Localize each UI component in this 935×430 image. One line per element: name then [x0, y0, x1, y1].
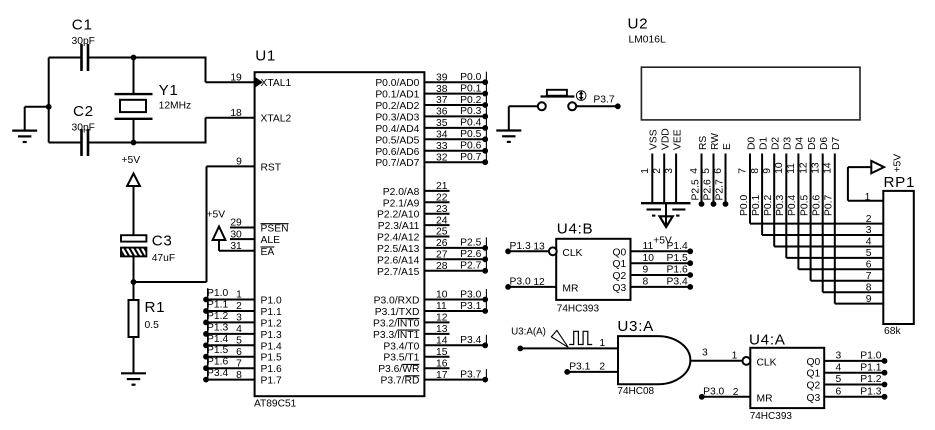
svg-text:P0.5: P0.5 [460, 129, 481, 140]
svg-text:13: 13 [533, 242, 545, 253]
svg-text:D0: D0 [746, 137, 757, 150]
svg-text:P0.5: P0.5 [799, 195, 810, 216]
svg-text:9: 9 [866, 294, 872, 305]
svg-text:2: 2 [236, 301, 242, 312]
svg-text:P2.2/A10: P2.2/A10 [377, 210, 420, 221]
svg-text:RW: RW [710, 133, 721, 150]
svg-text:E: E [722, 143, 733, 150]
svg-text:MR: MR [757, 393, 773, 404]
svg-text:6: 6 [866, 260, 872, 271]
svg-text:74HC393: 74HC393 [557, 303, 600, 314]
svg-text:P1.6: P1.6 [667, 265, 688, 276]
svg-text:P0.0: P0.0 [460, 72, 481, 83]
svg-text:P3.2/INT0: P3.2/INT0 [373, 318, 420, 329]
svg-text:P3.0/RXD: P3.0/RXD [374, 296, 420, 307]
svg-text:P0.7: P0.7 [824, 195, 835, 216]
svg-text:30pF: 30pF [72, 122, 95, 133]
svg-text:P0.2: P0.2 [460, 95, 481, 106]
svg-text:P1.3: P1.3 [207, 322, 228, 333]
svg-text:68k: 68k [884, 326, 901, 337]
svg-text:+5V: +5V [892, 154, 903, 173]
svg-text:U3:A(A): U3:A(A) [511, 327, 546, 338]
svg-text:Q3: Q3 [807, 393, 821, 404]
svg-text:C3: C3 [152, 233, 173, 250]
svg-text:P3.4: P3.4 [207, 368, 228, 379]
svg-text:C1: C1 [72, 17, 93, 34]
svg-text:1: 1 [236, 290, 242, 301]
svg-text:U1: U1 [255, 48, 276, 65]
svg-text:2: 2 [599, 361, 605, 372]
svg-text:P0.5/AD5: P0.5/AD5 [375, 135, 419, 146]
svg-text:P0.3: P0.3 [775, 195, 786, 216]
svg-text:C2: C2 [73, 103, 94, 120]
svg-text:3: 3 [236, 313, 242, 324]
svg-text:6: 6 [836, 386, 842, 397]
svg-text:8: 8 [866, 282, 872, 293]
svg-text:1: 1 [640, 168, 651, 174]
svg-text:P2.7/A15: P2.7/A15 [377, 267, 420, 278]
svg-text:31: 31 [230, 241, 242, 252]
svg-text:5: 5 [701, 168, 712, 174]
svg-text:P0.0/AD0: P0.0/AD0 [375, 78, 419, 89]
svg-text:74HC08: 74HC08 [617, 386, 654, 397]
svg-text:Q3: Q3 [613, 283, 627, 294]
svg-text:18: 18 [230, 108, 242, 119]
svg-text:+5V: +5V [207, 210, 226, 221]
svg-text:VDD: VDD [661, 128, 672, 150]
svg-text:P0.4: P0.4 [460, 118, 481, 129]
svg-text:Q0: Q0 [613, 247, 627, 258]
svg-text:10: 10 [774, 162, 785, 174]
svg-text:8: 8 [236, 370, 242, 381]
svg-text:P1.1: P1.1 [860, 362, 881, 373]
svg-text:D3: D3 [783, 137, 794, 150]
svg-text:3: 3 [836, 351, 842, 362]
svg-text:11: 11 [786, 163, 797, 174]
svg-text:P1.6: P1.6 [261, 364, 282, 375]
svg-text:Q1: Q1 [807, 369, 821, 380]
svg-text:4: 4 [836, 362, 842, 373]
svg-text:P1.5: P1.5 [667, 253, 688, 264]
svg-text:47uF: 47uF [152, 253, 175, 264]
svg-text:CLK: CLK [757, 357, 777, 368]
svg-text:EA: EA [261, 247, 275, 258]
svg-text:7: 7 [738, 168, 749, 174]
svg-text:P2.6/A14: P2.6/A14 [377, 255, 420, 266]
svg-text:P2.0/A8: P2.0/A8 [383, 187, 420, 198]
svg-text:D7: D7 [831, 137, 842, 150]
svg-text:P2.6: P2.6 [702, 179, 713, 200]
svg-text:RP1: RP1 [884, 174, 916, 191]
svg-text:1: 1 [732, 351, 738, 362]
svg-text:0.5: 0.5 [145, 320, 160, 331]
svg-text:P0.7: P0.7 [460, 152, 481, 163]
svg-text:9: 9 [762, 168, 773, 174]
svg-text:D2: D2 [771, 137, 782, 150]
svg-text:9: 9 [643, 265, 649, 276]
svg-text:Y1: Y1 [159, 82, 179, 99]
svg-text:P1.4: P1.4 [261, 341, 282, 352]
svg-text:P1.5: P1.5 [261, 353, 282, 364]
svg-text:P0.2: P0.2 [763, 195, 774, 216]
svg-text:P1.4: P1.4 [207, 334, 228, 345]
svg-text:P3.7/RD: P3.7/RD [380, 376, 419, 387]
svg-text:U3:A: U3:A [617, 318, 654, 335]
svg-text:P1.3: P1.3 [261, 330, 282, 341]
svg-text:P3.1/TXD: P3.1/TXD [375, 307, 420, 318]
svg-text:LM016L: LM016L [629, 35, 666, 46]
svg-text:VSS: VSS [649, 129, 660, 150]
svg-text:P0.3: P0.3 [460, 106, 481, 117]
svg-text:2: 2 [733, 387, 739, 398]
svg-text:P1.1: P1.1 [261, 307, 282, 318]
svg-text:4: 4 [236, 324, 242, 335]
svg-text:6: 6 [236, 347, 242, 358]
svg-text:4: 4 [689, 168, 700, 174]
svg-text:P0.0: P0.0 [739, 195, 750, 216]
svg-text:P3.7: P3.7 [593, 95, 614, 106]
svg-text:PSEN: PSEN [261, 224, 289, 235]
svg-text:CLK: CLK [562, 248, 582, 259]
svg-text:2: 2 [866, 214, 872, 225]
svg-text:10: 10 [643, 253, 655, 264]
svg-text:P1.2: P1.2 [261, 318, 282, 329]
svg-text:XTAL1: XTAL1 [261, 78, 292, 89]
svg-text:P0.3/AD3: P0.3/AD3 [375, 112, 419, 123]
svg-text:P1.2: P1.2 [207, 311, 228, 322]
svg-text:1: 1 [599, 338, 605, 349]
svg-text:30pF: 30pF [72, 36, 95, 47]
svg-text:P3.3/INT1: P3.3/INT1 [373, 330, 420, 341]
svg-text:P2.5: P2.5 [460, 238, 481, 249]
svg-text:Q0: Q0 [807, 357, 821, 368]
svg-text:12MHz: 12MHz [159, 101, 192, 112]
svg-text:P1.7: P1.7 [261, 376, 282, 387]
svg-text:D5: D5 [807, 137, 818, 150]
svg-text:P3.0: P3.0 [703, 386, 724, 397]
svg-text:P1.3: P1.3 [860, 386, 881, 397]
svg-text:RST: RST [261, 162, 282, 173]
svg-text:P3.1: P3.1 [569, 361, 590, 372]
svg-text:D1: D1 [758, 137, 769, 150]
svg-text:MR: MR [562, 283, 578, 294]
svg-text:6: 6 [713, 168, 724, 174]
svg-text:P3.5/T1: P3.5/T1 [383, 353, 419, 364]
svg-text:4: 4 [866, 237, 872, 248]
svg-text:P1.0: P1.0 [261, 296, 282, 307]
svg-text:3: 3 [702, 348, 708, 359]
svg-text:D6: D6 [819, 137, 830, 150]
svg-text:5: 5 [866, 248, 872, 259]
svg-text:P2.1/A9: P2.1/A9 [383, 198, 420, 209]
svg-text:Q2: Q2 [807, 381, 821, 392]
svg-text:9: 9 [236, 157, 242, 168]
svg-text:8: 8 [643, 277, 649, 288]
svg-text:P1.2: P1.2 [860, 374, 881, 385]
svg-text:30: 30 [230, 229, 242, 240]
svg-text:13: 13 [810, 162, 821, 174]
svg-text:D4: D4 [795, 137, 806, 150]
svg-text:P2.5: P2.5 [690, 179, 701, 200]
svg-text:2: 2 [652, 168, 663, 174]
svg-text:P3.7: P3.7 [460, 369, 481, 380]
svg-text:P0.6: P0.6 [460, 141, 481, 152]
svg-text:7: 7 [866, 271, 872, 282]
svg-text:P2.7: P2.7 [714, 179, 725, 200]
svg-text:3: 3 [866, 225, 872, 236]
svg-text:ALE: ALE [261, 235, 281, 246]
svg-text:29: 29 [230, 218, 242, 229]
svg-text:+5V: +5V [122, 155, 141, 166]
svg-text:AT89C51: AT89C51 [254, 399, 297, 410]
svg-text:12: 12 [533, 277, 545, 288]
svg-text:P3.0: P3.0 [460, 289, 481, 300]
svg-text:P0.2/AD2: P0.2/AD2 [375, 101, 419, 112]
svg-text:P0.4: P0.4 [787, 195, 798, 216]
svg-text:XTAL2: XTAL2 [261, 114, 292, 125]
svg-text:P0.6/AD6: P0.6/AD6 [375, 147, 419, 158]
svg-text:P3.4: P3.4 [667, 277, 688, 288]
svg-text:P1.1: P1.1 [207, 300, 228, 311]
svg-text:P2.6: P2.6 [460, 249, 481, 260]
svg-text:U2: U2 [628, 16, 649, 33]
svg-text:P3.0: P3.0 [510, 277, 531, 288]
svg-text:P1.5: P1.5 [207, 345, 228, 356]
svg-text:P2.7: P2.7 [460, 261, 481, 272]
svg-text:P3.6/WR: P3.6/WR [378, 364, 419, 375]
svg-text:11: 11 [643, 241, 654, 252]
svg-text:8: 8 [750, 168, 761, 174]
svg-text:Q1: Q1 [613, 259, 627, 270]
svg-text:VEE: VEE [672, 129, 683, 150]
svg-text:P0.6: P0.6 [812, 195, 823, 216]
svg-text:3: 3 [664, 168, 675, 174]
svg-text:U4:A: U4:A [749, 331, 786, 348]
svg-text:P1.0: P1.0 [860, 351, 881, 362]
svg-text:P0.7/AD7: P0.7/AD7 [375, 158, 419, 169]
svg-text:U4:B: U4:B [557, 221, 594, 238]
svg-text:5: 5 [236, 336, 242, 347]
svg-text:14: 14 [823, 162, 834, 174]
svg-text:P1.3: P1.3 [510, 241, 531, 252]
svg-text:P0.1: P0.1 [751, 195, 762, 216]
svg-text:7: 7 [236, 358, 242, 369]
svg-text:P3.4: P3.4 [460, 335, 481, 346]
svg-text:Q2: Q2 [613, 271, 627, 282]
svg-text:P2.3/A11: P2.3/A11 [378, 221, 420, 232]
svg-text:P2.4/A12: P2.4/A12 [377, 233, 420, 244]
svg-text:P3.4/T0: P3.4/T0 [383, 341, 419, 352]
svg-text:P1.0: P1.0 [207, 288, 228, 299]
svg-text:+5V: +5V [653, 235, 672, 246]
svg-text:P2.5/A13: P2.5/A13 [377, 244, 420, 255]
svg-text:74HC393: 74HC393 [750, 411, 793, 422]
svg-text:12: 12 [798, 162, 809, 174]
svg-text:P1.6: P1.6 [207, 357, 228, 368]
svg-text:P0.4/AD4: P0.4/AD4 [375, 124, 419, 135]
svg-text:P3.1: P3.1 [460, 301, 481, 312]
svg-text:5: 5 [836, 374, 842, 385]
svg-text:RS: RS [698, 136, 709, 150]
svg-text:R1: R1 [145, 299, 166, 316]
svg-text:P0.1: P0.1 [460, 83, 481, 94]
svg-text:1: 1 [865, 192, 871, 203]
svg-text:19: 19 [230, 72, 242, 83]
svg-text:P0.1/AD1: P0.1/AD1 [375, 90, 419, 101]
